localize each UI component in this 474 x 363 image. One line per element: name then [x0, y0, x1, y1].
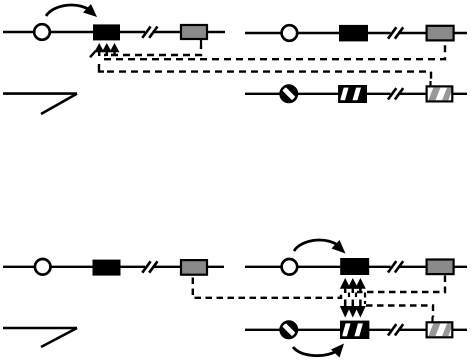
- gray box (right top): [427, 26, 454, 41]
- curved activation arrow (top): [294, 240, 346, 254]
- wire: bottom-left locus main line: [3, 266, 224, 268]
- break mark // (right bottom): [388, 88, 403, 99]
- dashed jogs in cluster: [349, 293, 365, 305]
- up arrowhead cluster below black box: [340, 278, 366, 293]
- gray box (bottom-right top): [427, 260, 454, 275]
- hatched gray box (bottom-right lower): [427, 317, 454, 337]
- gray box (left locus): [181, 25, 207, 39]
- broken chromosome end glyph (bottom panel): [3, 328, 77, 347]
- curved activation arrow (bottom): [293, 344, 344, 358]
- promoter black box (left locus): [93, 24, 120, 40]
- enhancer circle (bottom-right top): [282, 259, 298, 275]
- dashed connector: arrowheads to right gray box: [104, 42, 445, 60]
- arrowhead cluster under black box: [90, 43, 120, 57]
- dashed connector: right gray box down to cluster: [357, 276, 445, 293]
- hatched black box (right bottom): [339, 86, 366, 102]
- enhancer circle (right top): [282, 25, 298, 41]
- break mark // (bottom-right top): [388, 261, 403, 272]
- promoter black box (right top): [339, 25, 368, 42]
- wire: bottom-right top line: [245, 266, 467, 268]
- dashed connector: bottom-left gray box to right cluster: [193, 278, 341, 298]
- curved activation arrow: [46, 4, 97, 17]
- down arrowhead cluster above hatched black box: [340, 300, 366, 318]
- break mark // (bottom-right lower): [388, 324, 403, 335]
- break mark // (right top): [388, 27, 403, 38]
- hatched black box (bottom-right lower): [341, 322, 368, 338]
- wire: right locus top line: [245, 32, 467, 34]
- wire: right locus bottom (homolog) line: [245, 93, 467, 95]
- break mark // (bottom-left): [142, 261, 157, 272]
- striped circle (right bottom): [280, 85, 298, 103]
- stub below gray box: [200, 39, 202, 46]
- wire: bottom-right lower (homolog) line: [245, 329, 467, 331]
- wire: left locus main line: [3, 31, 225, 33]
- break mark // (left locus): [142, 27, 157, 38]
- enhancer circle (bottom-left): [35, 259, 51, 275]
- dashed connector: cluster to hatched gray box: [366, 306, 433, 318]
- broken chromosome end glyph (top panel): [3, 94, 77, 114]
- promoter black box (bottom-left): [93, 260, 121, 276]
- gray box (bottom-left): [181, 260, 207, 275]
- promoter black box (bottom-right top): [340, 258, 369, 275]
- hatched gray box (right bottom): [427, 81, 454, 101]
- dashed connector: arrowheads to right hatched gray box: [99, 64, 104, 72]
- striped circle (bottom-right lower): [280, 321, 298, 339]
- dashed connector: arrowheads to left gray box: [104, 46, 201, 55]
- enhancer circle (left locus): [34, 24, 50, 40]
